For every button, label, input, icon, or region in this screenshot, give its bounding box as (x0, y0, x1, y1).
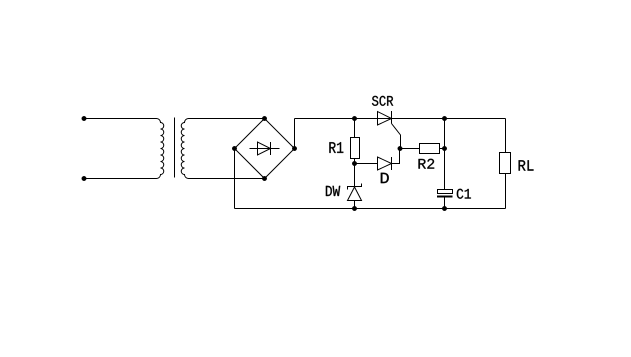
node gate junction (398, 146, 403, 151)
wire bottom rail (235, 208, 506, 210)
diode D (378, 157, 392, 170)
terminal node (primary top input) (82, 116, 87, 121)
node top rail C1 column tap (442, 116, 447, 121)
wire bridge left corner drop to bottom rail (234, 149, 236, 209)
node bridge right (292, 146, 297, 151)
transformer T core (174, 118, 176, 178)
thyristor SCR (378, 111, 401, 149)
resistor R1 (351, 138, 360, 159)
node top rail R1 tap (352, 116, 357, 121)
label RL (519, 160, 534, 170)
wire bridge right corner riser (294, 119, 296, 149)
wire R1 top lead (354, 119, 356, 138)
node bridge bottom (262, 176, 267, 181)
wire R1 bottom lead (354, 159, 356, 164)
node R2 output junction (442, 146, 447, 151)
wire DW bottom lead (354, 201, 356, 209)
zener diode DW (348, 184, 362, 201)
bridge rectifier diamond (235, 119, 295, 179)
node bridge left (232, 146, 237, 151)
wire gate row from R1 junction to diode D (355, 163, 378, 165)
label DW (326, 186, 340, 196)
node bottom rail DW junction (352, 206, 357, 211)
transformer T secondary winding (181, 119, 264, 179)
terminal node (primary bottom input) (82, 176, 87, 181)
resistor RL (500, 153, 511, 174)
wire RL bottom lead (505, 174, 507, 209)
wire diode D cathode riser to gate node (392, 149, 400, 164)
wire C1 column upper (444, 119, 446, 190)
label C1 (457, 189, 471, 199)
node bridge top (262, 116, 267, 121)
resistor R2 (420, 144, 440, 154)
wire right side drop to RL (505, 119, 507, 153)
transformer T primary winding (84, 119, 164, 179)
label SCR (372, 96, 393, 106)
wire gate node to R2 (400, 148, 420, 150)
capacitor C1 (437, 190, 453, 197)
label R1 (329, 142, 343, 153)
node R1 bottom junction (352, 161, 357, 166)
wire C1 bottom lead (444, 198, 446, 209)
wire R2 right lead (440, 148, 445, 150)
bridge internal diode symbol (250, 142, 280, 155)
node bottom rail C1 junction (442, 206, 447, 211)
label D (381, 173, 389, 183)
wire top rail (295, 118, 506, 120)
label R2 (419, 159, 435, 169)
wire DW top lead (354, 164, 356, 187)
